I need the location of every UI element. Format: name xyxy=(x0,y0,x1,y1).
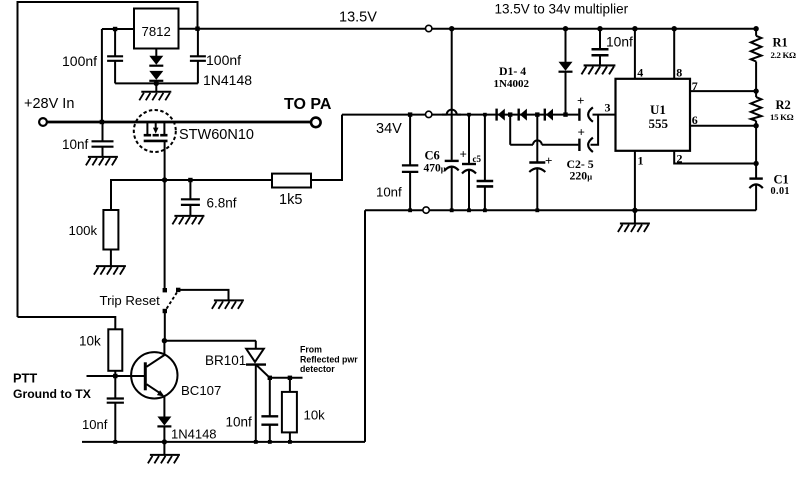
diode D 1N4148 pair lead xyxy=(155,49,157,57)
node rail BR101 junction xyxy=(254,440,258,444)
label TO PA xyxy=(284,96,332,113)
label 10k gate xyxy=(304,408,326,423)
label 220u reservoir plus xyxy=(545,153,552,168)
label 0.01 xyxy=(771,186,790,197)
svg-text:C6: C6 xyxy=(425,149,440,163)
wire R2 to C1 xyxy=(755,126,757,179)
capacitor C6 lead lower xyxy=(451,167,453,211)
svg-text:10nf: 10nf xyxy=(62,137,89,152)
transistor Q BC107 collector diag xyxy=(147,355,165,367)
node gnd rail 220u junction xyxy=(535,208,539,212)
svg-text:100k: 100k xyxy=(69,223,98,238)
svg-text:7: 7 xyxy=(692,79,698,93)
diode D 1N4148 upper xyxy=(149,56,163,66)
svg-text:+: + xyxy=(578,125,585,140)
capacitor C 220u reservoir lead xyxy=(536,168,538,210)
capacitor C 10nf 34V lead lower xyxy=(409,172,411,210)
label From xyxy=(300,345,322,355)
label C2 plus upper xyxy=(577,93,584,108)
capacitor C 100nf right xyxy=(190,56,206,61)
wire emitter lead xyxy=(163,397,165,417)
ground emitter xyxy=(148,455,180,464)
svg-text:34V: 34V xyxy=(376,121,402,137)
capacitor C3 lower pump xyxy=(579,138,593,152)
node 6.8nf junction xyxy=(188,178,192,182)
ground 10nf input xyxy=(86,157,118,166)
capacitor C1 lead lower xyxy=(755,184,757,210)
label Trip Reset xyxy=(100,293,161,308)
node pin1 ground junction xyxy=(632,208,637,213)
svg-text:100nf: 100nf xyxy=(206,52,241,68)
node 10nf 13.5V junction xyxy=(597,26,602,31)
svg-text:4: 4 xyxy=(637,66,643,80)
wire pin3 link xyxy=(593,114,616,116)
svg-text:C1: C1 xyxy=(774,173,789,187)
svg-text:D1- 4: D1- 4 xyxy=(499,64,526,78)
label 10nf 34V xyxy=(376,184,402,199)
transistor Q BC107 base bar xyxy=(144,362,147,390)
svg-text:8: 8 xyxy=(676,66,682,80)
label C2-5 xyxy=(567,157,594,171)
capacitor C 10nf gate lead xyxy=(269,378,271,417)
label BC107 xyxy=(181,383,221,398)
label detector xyxy=(300,364,335,374)
diode D1 xyxy=(497,109,505,121)
diode D top 1N4002 xyxy=(559,62,573,72)
svg-text:10k: 10k xyxy=(79,334,101,349)
svg-text:Reflected pwr: Reflected pwr xyxy=(300,355,358,365)
svg-text:TO PA: TO PA xyxy=(284,96,332,113)
label 1k5 xyxy=(279,192,302,208)
node rail emitter junction xyxy=(162,439,167,444)
transistor Q STW60N10 mid leg arrow xyxy=(153,122,159,134)
capacitor C 10nf gate lead lower xyxy=(269,425,271,442)
node gate junction xyxy=(162,177,167,182)
node gnd rail c5 junction xyxy=(467,208,471,212)
node 13.5V rail left junction xyxy=(195,27,199,31)
svg-text:13.5V: 13.5V xyxy=(339,10,377,26)
node pin8 rail junction xyxy=(672,26,677,31)
resistor R2 15K xyxy=(751,91,762,126)
svg-text:3: 3 xyxy=(605,101,611,115)
wire collector to BR101 xyxy=(164,340,256,342)
node rail 10k gate junction xyxy=(288,440,292,444)
capacitor C 6.8nf xyxy=(181,199,200,205)
svg-text:detector: detector xyxy=(300,364,335,374)
capacitor C filter lead lower xyxy=(484,186,486,210)
resistor R 10k gate lead upper xyxy=(289,378,291,392)
diode BR101 cathode bar xyxy=(246,363,266,365)
svg-text:15 KΩ: 15 KΩ xyxy=(770,112,794,122)
svg-text:100nf: 100nf xyxy=(62,53,97,69)
svg-text:2: 2 xyxy=(677,152,683,166)
svg-text:Trip Reset: Trip Reset xyxy=(100,293,161,308)
node switch upper pad xyxy=(163,288,167,292)
wire gate node horizontal xyxy=(111,179,272,181)
label U1 xyxy=(650,102,666,117)
diode D top lead xyxy=(565,29,567,62)
transistor Q STW60N10 body circle xyxy=(134,110,176,152)
label 10nf base xyxy=(82,417,108,432)
transistor Q BC107 emitter diag xyxy=(147,384,165,396)
terminal TO PA xyxy=(311,118,321,128)
label 15 KOhm xyxy=(770,112,794,122)
transistor Q STW60N10 gate bar xyxy=(144,140,168,143)
node junction 7812 input xyxy=(113,27,117,31)
wire pump drop A xyxy=(509,115,511,145)
label c5 xyxy=(473,154,482,164)
wire base xyxy=(87,375,146,377)
wire ground rail descent xyxy=(364,210,366,442)
capacitor C2 upper pump xyxy=(579,107,593,121)
svg-text:BC107: BC107 xyxy=(181,383,221,398)
label 1N4002 xyxy=(494,78,530,90)
diode BR101 triangle xyxy=(246,349,264,362)
label c5 plus xyxy=(460,147,467,162)
wire gate node horizontal BR101 xyxy=(270,377,303,379)
capacitor C 10nf input lead xyxy=(102,122,104,141)
capacitor C 100nf right lead upper xyxy=(197,29,199,57)
op-amp U1 555 box xyxy=(616,79,691,151)
capacitor C filter 34V xyxy=(477,181,494,186)
capacitor C 220u reservoir xyxy=(529,163,545,173)
svg-text:220µ: 220µ xyxy=(570,169,593,183)
label C6 xyxy=(425,149,440,163)
label Reflected pwr xyxy=(300,355,358,365)
wire pin 2 xyxy=(674,151,756,164)
capacitor C5 lead xyxy=(468,115,470,163)
ground 7812 xyxy=(139,92,171,101)
node top diode 13.5V junction xyxy=(563,26,568,31)
svg-text:BR101: BR101 xyxy=(205,353,246,368)
ground 6.8nf xyxy=(172,216,204,225)
label 100nf right xyxy=(206,52,241,68)
label 10k base xyxy=(79,334,101,349)
ground 100k xyxy=(94,266,126,275)
transistor Q STW60N10 left leg xyxy=(146,122,148,134)
label 6.8nf xyxy=(207,195,237,210)
node 10k gate junction xyxy=(288,376,292,380)
resistor R 10k gate box xyxy=(282,392,297,433)
node rail 10nf base junction xyxy=(113,440,117,444)
svg-text:+28V In: +28V In xyxy=(24,96,74,112)
label 13.5V xyxy=(339,10,377,26)
label 100k xyxy=(69,223,98,238)
resistor R1 2.2K xyxy=(751,29,762,91)
resistor R 100k lower lead xyxy=(110,250,112,266)
wire BR101 gate diag xyxy=(257,365,270,377)
node diode ground junction xyxy=(154,81,159,86)
svg-text:6.8nf: 6.8nf xyxy=(207,195,237,210)
capacitor C6 470u xyxy=(445,161,459,171)
label 2.2 KOhm xyxy=(771,50,797,60)
wire bottom ground rail xyxy=(82,441,365,443)
wire pin 8 to rail xyxy=(673,29,675,79)
wire diode to ground rail xyxy=(163,427,165,442)
label 34V xyxy=(376,121,402,137)
wire pin 1 to ground rail xyxy=(634,151,636,211)
resistor R 10k gate lead lower xyxy=(289,432,291,442)
capacitor C 10nf base lead lower xyxy=(114,403,116,442)
svg-text:10nf: 10nf xyxy=(606,34,633,49)
ground trip reset xyxy=(212,300,244,309)
node switch throw pad xyxy=(176,288,180,292)
diode D3 xyxy=(545,109,553,121)
node C6 13.5V junction xyxy=(449,26,454,31)
capacitor C 6.8nf lead xyxy=(189,180,191,199)
node connector circle on 34V rail xyxy=(426,111,432,117)
label pin 8 xyxy=(676,66,682,80)
svg-text:10k: 10k xyxy=(304,408,326,423)
wire switch to ground xyxy=(180,290,229,300)
svg-text:1: 1 xyxy=(638,154,644,168)
capacitor C 10nf mult lead lower xyxy=(599,55,601,65)
node connector circle on 13.5V rail xyxy=(426,25,432,31)
label Ground to TX xyxy=(13,387,92,401)
transistor Q BC107 circle xyxy=(131,352,177,398)
wire left feed to 10k xyxy=(18,317,116,329)
label pin 3 xyxy=(605,101,611,115)
capacitor C 10nf gate xyxy=(261,416,278,424)
capacitor C1 0.01 xyxy=(749,179,762,189)
wire 100k corner xyxy=(110,179,112,210)
node pin4 rail junction xyxy=(632,26,637,31)
node gate pad xyxy=(268,376,272,380)
svg-text:+: + xyxy=(460,147,467,162)
node pin6 R junction xyxy=(753,123,758,128)
node pump node A junction xyxy=(508,112,512,116)
capacitor C 100nf left xyxy=(107,56,123,61)
wire diode to rail xyxy=(155,81,157,84)
label 1N4148 top xyxy=(203,72,252,88)
node gnd rail 10nf junction xyxy=(408,208,412,212)
label 1N4148 emitter xyxy=(171,427,217,442)
resistor R 1k5 box xyxy=(272,174,311,188)
wire pin 7 xyxy=(690,90,756,92)
svg-text:7812: 7812 xyxy=(142,24,171,39)
label C3 plus lower xyxy=(578,125,585,140)
capacitor C6 lead upper xyxy=(451,29,453,160)
svg-text:10nf: 10nf xyxy=(226,415,253,430)
svg-text:10nf: 10nf xyxy=(82,417,108,432)
wire MOSFET gate lead down xyxy=(164,141,166,180)
label R2 xyxy=(776,98,791,112)
transistor Q STW60N10 feet xyxy=(144,134,168,137)
diode D2 xyxy=(519,109,527,121)
wire BR101 anode corner xyxy=(255,341,257,349)
svg-text:+: + xyxy=(545,153,552,168)
node pin2 C1 junction xyxy=(753,161,758,166)
capacitor C 10nf base lead xyxy=(114,376,116,399)
svg-text:+: + xyxy=(577,93,584,108)
wire drain-source rail through MOSFET xyxy=(136,121,174,124)
svg-text:0.01: 0.01 xyxy=(771,186,790,197)
wire hop 34V over C6 xyxy=(442,110,461,115)
label 10nf gate xyxy=(226,415,253,430)
label STW60N10 xyxy=(179,127,254,143)
resistor R 10k lower lead xyxy=(114,371,116,376)
capacitor C5 lead lower xyxy=(468,170,470,211)
svg-text:1N4148: 1N4148 xyxy=(171,427,217,442)
label pin 1 xyxy=(638,154,644,168)
wire 1k5 to 34V rail xyxy=(311,115,342,180)
node connector circle ground rail xyxy=(423,207,429,213)
wire 7812 ground rail xyxy=(115,82,198,84)
wire collector lead xyxy=(163,341,165,355)
terminal +28V In xyxy=(39,118,47,126)
svg-text:1N4002: 1N4002 xyxy=(494,78,530,90)
svg-text:Ground to TX: Ground to TX xyxy=(13,387,92,401)
wire emitter ground stem xyxy=(163,442,165,455)
node c5 34V junction xyxy=(467,113,471,117)
regulator U 7812 box xyxy=(134,9,179,49)
label PTT xyxy=(13,371,37,386)
svg-text:6: 6 xyxy=(692,113,698,127)
diode D top lead lower xyxy=(565,72,567,115)
diode D 1N4148 emitter xyxy=(157,417,171,427)
wire 7812 output to 13.5V rail xyxy=(179,28,198,30)
wire switch to collector node xyxy=(164,313,166,341)
wire top-left feed (13.5V loop) xyxy=(18,2,198,317)
wire pump drop B xyxy=(536,115,538,162)
wire 34V rail xyxy=(342,114,578,116)
label pin 6 xyxy=(692,113,698,127)
node pump node B junction xyxy=(535,112,539,116)
svg-text:2.2 KΩ: 2.2 KΩ xyxy=(771,50,797,60)
capacitor C 100nf right lead lower xyxy=(197,61,199,84)
svg-text:U1: U1 xyxy=(650,102,666,117)
svg-text:1N4148: 1N4148 xyxy=(203,72,252,88)
wire 7812 input down to +28V rail xyxy=(101,29,103,122)
capacitor C 10nf base xyxy=(107,399,124,403)
label D1-4 xyxy=(499,64,526,78)
capacitor C 10nf mult xyxy=(592,49,609,55)
capacitor C 10nf 34V lead xyxy=(409,115,411,166)
node pin7 R junction xyxy=(753,88,758,93)
label 555 xyxy=(649,116,669,131)
wire 13.5V rail xyxy=(198,28,757,30)
svg-text:c5: c5 xyxy=(473,154,482,164)
label 7812 xyxy=(142,24,171,39)
svg-text:470µ: 470µ xyxy=(424,163,446,175)
node top diode 34V junction xyxy=(563,112,567,116)
label 470u xyxy=(424,163,446,175)
capacitor C 100nf left lead lower xyxy=(114,61,116,84)
resistor R 100k box xyxy=(103,210,118,250)
capacitor C 10nf mult lead xyxy=(599,29,601,50)
label pin 7 xyxy=(692,79,698,93)
svg-text:1k5: 1k5 xyxy=(279,192,302,208)
svg-text:STW60N10: STW60N10 xyxy=(179,127,254,143)
label pin 4 xyxy=(637,66,643,80)
wire MOSFET to TO PA xyxy=(174,121,312,124)
wire lower pump to pin3 xyxy=(591,115,599,145)
svg-text:R2: R2 xyxy=(776,98,791,112)
switch lever dashed xyxy=(167,292,178,309)
wire BR101 cathode down xyxy=(255,365,257,442)
node 28V rail junction xyxy=(100,120,104,124)
wire +28V to MOSFET xyxy=(47,121,136,124)
wire gate node to switch xyxy=(164,180,166,288)
svg-text:R1: R1 xyxy=(773,36,788,50)
capacitor C 10nf input lead lower xyxy=(102,147,104,157)
label R1 xyxy=(773,36,788,50)
label title multiplier xyxy=(495,2,629,17)
svg-text:13.5V to 34v multiplier: 13.5V to 34v multiplier xyxy=(495,2,629,17)
capacitor C 10nf 34V xyxy=(402,165,418,172)
transistor Q STW60N10 right leg xyxy=(163,122,165,134)
node collector junction xyxy=(162,338,167,343)
capacitor C5 xyxy=(462,164,476,174)
label pin 2 xyxy=(677,152,683,166)
node rail 10nf gate junction xyxy=(268,440,272,444)
capacitor C 100nf left lead upper xyxy=(114,29,116,56)
ground 555 pin1 xyxy=(618,210,650,232)
svg-text:PTT: PTT xyxy=(13,371,37,386)
wire lower pump rail xyxy=(510,140,578,144)
node filter cap 34V junction xyxy=(483,113,487,117)
label C1 xyxy=(774,173,789,187)
capacitor C 10nf input xyxy=(92,141,114,146)
node switch lower pad xyxy=(163,309,167,313)
wire pin 6 xyxy=(690,125,756,127)
svg-text:From: From xyxy=(300,345,322,355)
svg-text:555: 555 xyxy=(649,116,669,131)
ground 10nf mult xyxy=(581,65,615,74)
diode D 1N4148 lower xyxy=(149,71,163,81)
label 220u xyxy=(570,169,593,183)
label BR101 xyxy=(205,353,246,368)
wire pin 4 to rail xyxy=(634,29,636,79)
node 10nf 34V junction xyxy=(408,112,412,116)
node gnd rail C6 junction xyxy=(450,208,454,212)
label +28V In xyxy=(24,96,74,112)
node R1 rail corner xyxy=(753,26,758,31)
label 10nf mult xyxy=(606,34,633,49)
node base junction xyxy=(113,374,117,378)
wire multiplier ground rail xyxy=(365,209,756,211)
capacitor C 6.8nf lead lower xyxy=(189,205,191,216)
resistor R 10k base box xyxy=(108,329,122,371)
capacitor C filter lead xyxy=(484,115,486,180)
label 10nf input xyxy=(62,137,89,152)
node gnd rail filter junction xyxy=(483,208,487,212)
label 100nf left xyxy=(62,53,97,69)
svg-text:10nf: 10nf xyxy=(376,184,402,199)
wire ground stem 7812 xyxy=(155,83,157,91)
